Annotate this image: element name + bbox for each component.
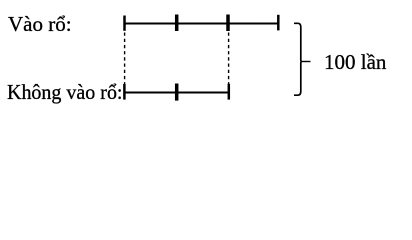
top segment line (Vào rổ): [125, 22, 279, 24]
brace middle tick: [301, 61, 311, 63]
label "100 lần": [324, 52, 386, 73]
label "Vào rổ:": [8, 14, 72, 35]
brace for 100 lần: [294, 23, 301, 95]
top segment middle tick 1: [175, 15, 179, 32]
bottom segment left end tick: [123, 84, 126, 100]
top segment left end tick: [123, 16, 126, 31]
bottom segment right end tick: [228, 84, 231, 100]
right dashed projection line: [228, 33, 230, 86]
left dashed projection line: [124, 33, 126, 86]
top segment middle tick 2: [226, 15, 230, 32]
top segment right end tick: [277, 15, 280, 31]
label "Không vào rổ:": [7, 82, 123, 103]
bottom segment middle tick: [175, 84, 179, 101]
bottom segment line (Không vào rổ): [124, 91, 228, 93]
